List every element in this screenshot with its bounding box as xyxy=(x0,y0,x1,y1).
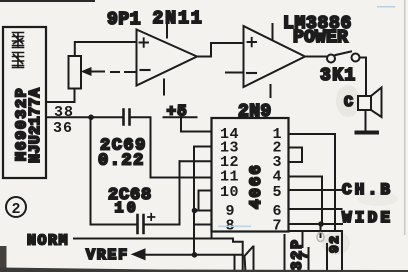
op-amp U2 power ticks xyxy=(271,24,273,97)
svg-text:POWER: POWER xyxy=(293,28,348,48)
svg-text:NORM: NORM xyxy=(27,233,69,250)
junction dot B xyxy=(192,208,198,214)
svg-text:WIDE: WIDE xyxy=(342,209,393,227)
svg-text:9P1: 9P1 xyxy=(107,10,141,30)
svg-text:C: C xyxy=(344,94,353,111)
svg-text:VREF: VREF xyxy=(86,247,129,264)
wire pin38 xyxy=(46,89,75,103)
dashed link wiper to op-amp1 minus xyxy=(111,71,137,73)
svg-text:0.22: 0.22 xyxy=(98,152,145,171)
wire pin6 to WIDE xyxy=(289,208,342,210)
right edge scan line xyxy=(404,0,406,235)
bottom border taper xyxy=(0,268,408,272)
svg-text:5: 5 xyxy=(273,184,282,201)
wire 2C69 to pin11 xyxy=(130,117,212,177)
svg-text:11: 11 xyxy=(220,169,239,186)
wire switch to speaker xyxy=(360,58,367,97)
bottom speaker horn xyxy=(245,247,254,272)
junction dot C xyxy=(192,252,198,258)
wire pin1 xyxy=(289,134,336,231)
+5 rail underline xyxy=(164,116,197,118)
scan smudge bottom right xyxy=(322,231,350,255)
op-amp U1 power ticks xyxy=(164,17,167,95)
wire pin2-pin3 jumper xyxy=(289,148,303,163)
scan smudge near WIDE xyxy=(358,192,398,206)
switch lever xyxy=(336,52,352,56)
connector divider xyxy=(302,233,304,247)
op-amp U2 (LM3886) xyxy=(244,26,306,87)
svg-text:7: 7 xyxy=(297,252,312,260)
svg-text:3K1: 3K1 xyxy=(320,66,357,86)
connector divider 2 xyxy=(308,248,310,272)
faint blue line near pin8 xyxy=(218,226,251,228)
wire op-amp1 output to op-amp2 + xyxy=(197,43,244,57)
wire op-amp2 output to switch xyxy=(305,56,327,58)
wire pot top to op-amp1 + xyxy=(75,42,137,56)
IC bottom-left stub xyxy=(211,232,213,239)
wire pin5 to CH.B xyxy=(289,189,343,191)
wire pin10 jog xyxy=(199,191,212,211)
wire pin13 / vertical bus to VREF xyxy=(194,147,212,255)
op-amp U2 inverting input stub xyxy=(226,72,244,74)
IC U2N9 box xyxy=(212,118,289,232)
wire pin9 stub xyxy=(194,210,212,212)
op-amp U1 (9P1 2N11) xyxy=(137,30,198,86)
bottom speaker post xyxy=(234,255,236,272)
svg-text:4066: 4066 xyxy=(247,163,265,209)
svg-text:NJU2177A: NJU2177A xyxy=(27,88,44,163)
bottom border scan line xyxy=(0,270,408,272)
wire pin7 xyxy=(289,223,343,225)
svg-text:10: 10 xyxy=(115,200,139,217)
wire pin4 xyxy=(289,177,323,225)
svg-text:4: 4 xyxy=(273,169,282,186)
junction dot A xyxy=(88,115,94,121)
svg-text:36: 36 xyxy=(53,120,73,137)
svg-text:2: 2 xyxy=(12,201,21,218)
decoder IC box U-left xyxy=(3,27,46,178)
wire pin12 jog xyxy=(180,161,212,177)
connector bottom bus xyxy=(289,231,343,272)
wire pin8 stub xyxy=(196,224,212,226)
VREF arrow xyxy=(132,249,145,260)
pin numbers right column xyxy=(273,126,282,235)
ground below speaker xyxy=(365,110,367,131)
bottom left edge blob xyxy=(0,246,7,272)
label 解码 (rotated, drawn strokes) xyxy=(13,33,24,68)
pin numbers left column xyxy=(220,126,239,235)
wire VREF xyxy=(142,254,243,256)
wire pin36 xyxy=(46,116,123,118)
svg-text:92: 92 xyxy=(327,235,342,253)
wire 2C68 right xyxy=(144,161,180,224)
potentiometer xyxy=(69,56,82,89)
connector divider 3 xyxy=(326,244,328,272)
svg-text:2N11: 2N11 xyxy=(153,9,204,29)
circled 2 symbol xyxy=(6,197,26,217)
top border scan line xyxy=(0,0,95,2)
wiper arrow xyxy=(90,71,104,73)
wire NORM xyxy=(74,239,243,272)
svg-text:7: 7 xyxy=(273,218,282,235)
junction dot D xyxy=(318,221,324,227)
plus mark of 2C68 xyxy=(148,214,155,221)
svg-text:38: 38 xyxy=(54,104,74,121)
scan smudge near C xyxy=(336,85,360,117)
capacitor 2C68 xyxy=(138,215,144,233)
svg-text:CH.B: CH.B xyxy=(342,181,393,199)
connector left edge xyxy=(284,235,286,272)
capacitor 2C69 xyxy=(124,110,130,125)
stub below dot D xyxy=(320,224,322,237)
wire +5 to pin14 xyxy=(181,117,212,131)
svg-text:2N9: 2N9 xyxy=(238,102,272,122)
faint blue dash top right xyxy=(377,6,395,8)
faint mark 0 xyxy=(317,233,324,242)
switch 3K1 contact circles xyxy=(327,55,335,63)
svg-text:10: 10 xyxy=(220,184,239,201)
speaker LS1 xyxy=(358,96,371,110)
wire 2C68 left to node A xyxy=(91,117,138,224)
